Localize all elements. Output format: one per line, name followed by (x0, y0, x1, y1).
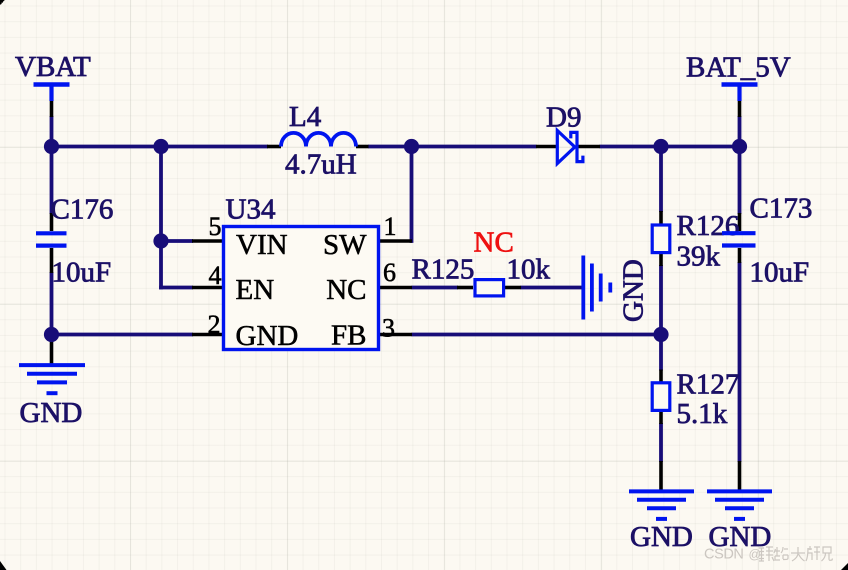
svg-text:C176: C176 (51, 194, 114, 226)
wire C173 branch upper (738, 147, 742, 215)
node VBAT junction (44, 139, 59, 154)
wire VBAT stub (50, 116, 54, 148)
wire R127 lower (659, 423, 663, 462)
node FB junction (653, 327, 668, 342)
cursor fragment top-left corner (0, 0, 5, 5)
wire C176 branch upper (50, 147, 54, 215)
wire GND row to pin 2 (52, 333, 194, 337)
svg-text:5.1k: 5.1k (677, 398, 728, 430)
wire R126 branch upper (659, 147, 663, 213)
wire R125 left segment (412, 286, 459, 290)
svg-text:GND: GND (20, 397, 83, 429)
resistor R125 (475, 280, 504, 296)
wire VIN/EN branch vertical (159, 147, 163, 290)
pin R127 bottom pin (659, 411, 663, 424)
wire C176 branch lower (50, 272, 54, 336)
wire EN horizontal (159, 286, 193, 290)
wire C173 branch lower (738, 262, 742, 462)
pin L4 pin 2 (356, 145, 369, 149)
pin U34 pin 4 (192, 286, 222, 290)
cursor fragment bottom-left (0, 561, 7, 570)
svg-text:2: 2 (208, 310, 221, 339)
wire SW branch vertical (410, 147, 414, 243)
svg-text:EN: EN (236, 274, 275, 306)
node BAT_5V junction (732, 139, 747, 154)
svg-text:VBAT: VBAT (15, 51, 91, 83)
pin VBAT power symbol pin (black) (50, 100, 54, 117)
ground symbol bottom-left (R127) (629, 491, 694, 519)
pin R125 right pin (505, 286, 521, 290)
node GND junction left (44, 327, 59, 342)
node VIN junction (153, 233, 168, 248)
capacitor C173 (722, 233, 756, 245)
svg-text:R127: R127 (677, 368, 740, 400)
svg-text:1: 1 (384, 212, 397, 241)
pin U34 pin 5 (192, 239, 222, 243)
wire FB net horizontal (412, 333, 662, 337)
svg-text:R126: R126 (677, 210, 740, 242)
node SW/L4 junction (404, 139, 419, 154)
svg-text:SW: SW (323, 229, 367, 261)
pin U34 pin 6 (380, 286, 412, 290)
svg-text:10uF: 10uF (750, 257, 810, 289)
svg-text:GND: GND (236, 320, 299, 352)
svg-text:CSDN: CSDN (704, 547, 744, 563)
pin BAT_5V power symbol pin (black) (738, 100, 742, 117)
svg-text:3: 3 (382, 314, 395, 343)
svg-text:GND: GND (618, 259, 650, 322)
pin R126 bottom pin (659, 253, 663, 266)
svg-text:GND: GND (630, 521, 693, 553)
diode D9 (schottky) (557, 131, 583, 164)
svg-text:FB: FB (331, 320, 366, 352)
svg-text:4: 4 (209, 261, 222, 290)
pin C176 top pin (50, 213, 54, 231)
wire top rail left segment (52, 145, 269, 149)
pin D9 anode pin (536, 145, 557, 149)
svg-text:4.7uH: 4.7uH (285, 149, 357, 181)
pin bottom-right GND symbol pin (738, 461, 742, 490)
pin L4 pin 1 (267, 145, 281, 149)
pin U34 pin 1 (380, 239, 412, 243)
pin R127 top pin (659, 370, 663, 383)
wire VIN horizontal (161, 239, 193, 243)
pin U34 pin 3 (380, 333, 412, 337)
ic U34 body (224, 227, 379, 350)
pin left GND symbol pin (50, 335, 54, 364)
node VIN branch junction top (153, 139, 168, 154)
power symbol BAT_5V bar (722, 85, 758, 102)
cursor fragment bottom-right (841, 563, 848, 570)
power symbol VBAT bar (34, 85, 70, 102)
svg-text:6: 6 (383, 258, 396, 287)
ground symbol (rotated) at R125 (583, 256, 610, 320)
capacitor C176 (36, 233, 67, 245)
node D9 cathode junction (653, 139, 668, 154)
wire R126 branch lower (659, 265, 663, 336)
pin C173 top pin (738, 213, 742, 231)
pin U34 pin 2 (192, 333, 222, 337)
pin bottom-left GND symbol pin (659, 461, 663, 490)
svg-text:D9: D9 (546, 102, 581, 134)
pin C176 bottom pin (50, 248, 54, 273)
svg-text:NC: NC (474, 227, 514, 259)
svg-text:5: 5 (209, 212, 222, 241)
wire R125 right segment to ground (521, 286, 582, 290)
ground symbol bottom-right (C173) (707, 491, 772, 519)
wire BAT_5V stub (738, 116, 742, 148)
resistor R127 (652, 383, 670, 411)
wire top rail right of L4 (368, 145, 537, 149)
svg-text:U34: U34 (226, 194, 276, 226)
svg-text:10uF: 10uF (52, 256, 112, 288)
pin C173 bottom pin (738, 248, 742, 263)
pin D9 cathode pin (578, 145, 600, 149)
ground symbol left (19, 365, 85, 393)
inductor L4 (281, 133, 356, 147)
svg-text:BAT_5V: BAT_5V (686, 52, 791, 84)
pin R126 top pin (659, 211, 663, 224)
svg-text:NC: NC (326, 274, 366, 306)
svg-text:C173: C173 (750, 193, 813, 225)
svg-text:L4: L4 (289, 101, 322, 133)
watermark chinese glyph strokes (759, 546, 833, 561)
pin R125 left pin (457, 286, 473, 290)
svg-text:VIN: VIN (236, 229, 288, 261)
wire R127 upper (659, 335, 663, 371)
svg-text:R125: R125 (412, 253, 475, 285)
svg-text:39k: 39k (677, 240, 721, 272)
wire top rail right of D9 (600, 145, 740, 149)
resistor R126 (652, 225, 670, 253)
